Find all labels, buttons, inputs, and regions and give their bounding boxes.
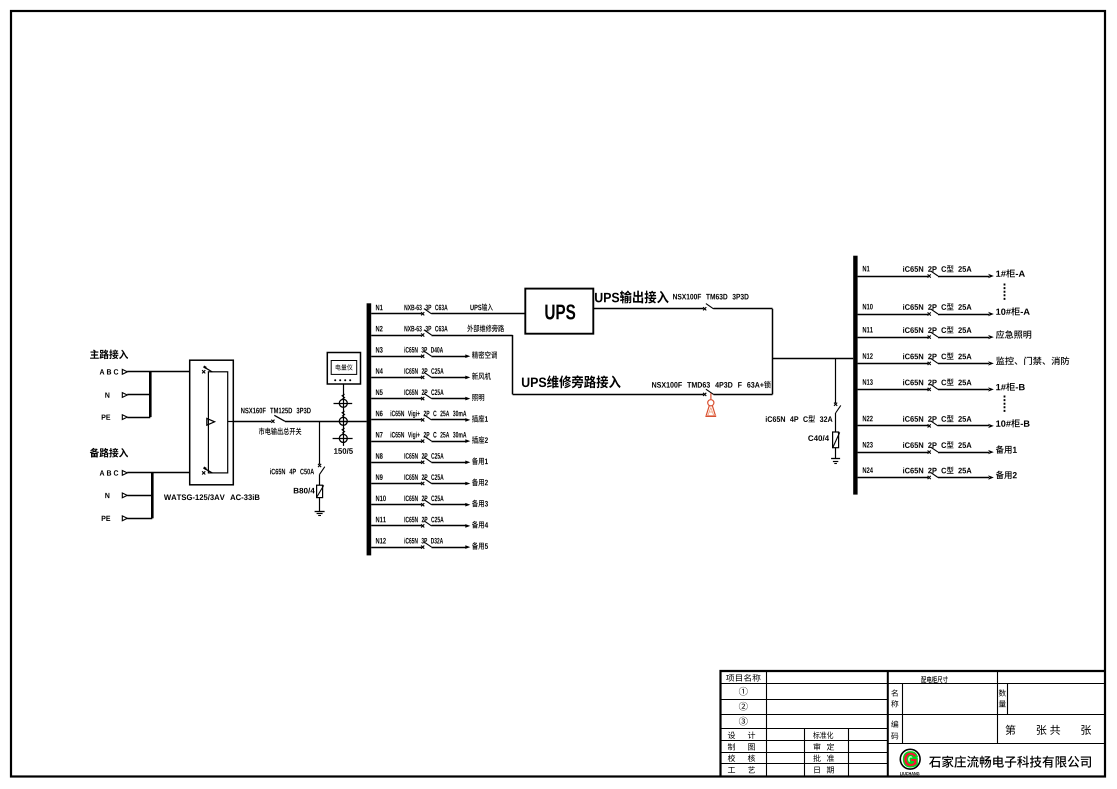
SPD B80/4 symbol <box>317 485 324 497</box>
wire PE backup <box>127 518 152 520</box>
wire SPD to ground <box>319 498 321 512</box>
breaker N13 (bus 2) <box>928 384 938 391</box>
wire N2 from bus <box>371 335 421 337</box>
label UPS输出接入 <box>595 291 669 304</box>
power meter box 电量仪 <box>327 353 360 385</box>
SPD C40/4 symbol <box>833 432 840 448</box>
label 外部维修旁路 (N2) <box>467 325 504 333</box>
node N11 label <box>376 517 386 523</box>
label IC65N 2P C25A (N10) <box>404 496 443 502</box>
node N10 label <box>376 496 386 502</box>
breaker N2 NXB-63 <box>421 330 431 337</box>
wire N22 from bus 2 <box>858 425 928 427</box>
wire SPD2 to ground <box>835 448 837 459</box>
wire N24 to load <box>938 477 989 479</box>
cell label 核 <box>748 754 755 761</box>
cell label 工 <box>728 767 735 773</box>
load label 备用3 (N10) <box>472 500 488 508</box>
load arrow N4 <box>465 376 470 380</box>
wire N11 from bus <box>371 525 421 527</box>
label iC65N 2P C型 25A (N12) <box>903 353 971 360</box>
breaker N4 <box>421 372 431 379</box>
cell label 计 <box>748 732 755 739</box>
sheet numbering 第 张 共 张 <box>1006 725 1016 735</box>
wire N3 from bus <box>371 356 421 358</box>
ground symbol (C40/4) <box>831 459 840 464</box>
breaker N23 (bus 2) <box>928 447 938 454</box>
load arrow N9 <box>465 482 470 486</box>
wire to SPD B80/4 <box>319 474 321 485</box>
wire N1 from bus <box>371 313 421 315</box>
wire N backup <box>127 495 152 497</box>
load arrow N10 (bus 2) <box>988 312 994 316</box>
wire UPS output <box>593 308 703 310</box>
label UPS维修旁路接入 <box>522 375 621 388</box>
wire vertical collector backup <box>151 473 154 518</box>
load label 精密空调 (N3) <box>472 351 497 359</box>
label iC65N 3P D40A (N3) <box>404 347 443 353</box>
wire N11 to load <box>432 525 467 527</box>
CT 3 <box>339 434 347 442</box>
logo text LIUCHANG <box>900 772 919 775</box>
ellipsis dashes N13..N22 <box>1004 396 1006 413</box>
load label 监控、门禁、消防 (N12) <box>996 357 1069 365</box>
node N12 label <box>376 538 386 544</box>
title block horizontal line y=714.0 <box>721 714 1106 716</box>
load arrow N6 <box>465 418 470 422</box>
ATS inner box <box>208 372 227 473</box>
wire N4 to load <box>432 377 467 379</box>
breaker iC65N 4P C50A <box>318 464 325 474</box>
terminal label A B C (backup) <box>100 470 119 475</box>
label IC65N 2P C25A (N4) <box>404 368 443 374</box>
breaker N24 (bus 2) <box>928 472 938 479</box>
load arrow N24 (bus 2) <box>988 475 994 479</box>
title block vertical x=766 <box>766 671 768 776</box>
cell label 码 <box>891 733 898 740</box>
wire N22 to load <box>938 425 989 427</box>
title block vertical x=997 <box>997 671 999 744</box>
node N8 label <box>376 453 383 459</box>
padlock interlock symbol (orange) <box>705 393 716 416</box>
label iC65N 4P C型 32A <box>766 415 833 422</box>
cell label 艺 <box>748 766 755 773</box>
label NXB-63 3P C63A (N1) <box>404 305 447 311</box>
wire N5 to load <box>432 398 467 400</box>
label UPS输入 (N1) <box>470 303 492 310</box>
breaker N12 <box>421 542 431 549</box>
label NSX100F TMD63 4P3D F 63A+锁 <box>652 381 771 388</box>
load arrow N8 <box>465 461 470 465</box>
cell label 期 <box>827 766 834 773</box>
input terminal arrow main PE <box>122 415 127 420</box>
wire main to bus 1 <box>285 421 367 423</box>
wire N6 from bus <box>371 419 421 421</box>
title block left horizontal y=752.6 <box>721 752 888 754</box>
label iC65N 2P C型 25A (N23) <box>903 441 971 448</box>
wire vertical output/bypass join <box>772 309 774 395</box>
wire N13 from bus 2 <box>858 389 928 391</box>
ground symbol (B80/4) <box>315 512 325 516</box>
wire N7 to load <box>432 441 467 443</box>
breaker N11 (bus 2) <box>928 332 938 339</box>
title block outline <box>721 671 1106 776</box>
load label 1#柜-B (N13) <box>996 383 1025 391</box>
load arrow N10 <box>465 503 470 507</box>
company logo (G in circle) <box>900 749 920 769</box>
wire surge branch down <box>319 421 321 464</box>
wire N12 to load <box>432 547 467 549</box>
wire N4 from bus <box>371 377 421 379</box>
wire N1 to UPS <box>432 313 526 315</box>
wire N24 from bus 2 <box>858 477 928 479</box>
load arrow N1 (bus 2) <box>988 274 994 278</box>
cell label 称 <box>891 700 898 707</box>
load arrow N13 (bus 2) <box>988 387 994 391</box>
wire N10 to load <box>938 314 989 316</box>
wire ATS inner to outer <box>228 421 234 423</box>
wire bypass run <box>513 394 704 396</box>
wire bypass to corner <box>714 394 773 396</box>
title block vertical x=902 <box>902 684 904 744</box>
breaker N11 <box>421 521 431 528</box>
load label 插座2 (N7) <box>472 436 488 444</box>
wire output to corner <box>714 308 773 310</box>
CT 2 (on main line) <box>339 417 347 425</box>
CT 3 bar <box>333 438 353 440</box>
cell label 制 <box>728 743 735 750</box>
wire N10 from bus 2 <box>858 314 928 316</box>
label IC65N 2P C25A (N8) <box>404 453 443 459</box>
node N7 label <box>376 432 383 438</box>
wire N6 to load <box>432 419 467 421</box>
node N5 label <box>376 389 383 395</box>
load arrow N12 <box>465 545 470 549</box>
node N23 label (bus 2) <box>863 442 873 448</box>
load label 备用5 (N12) <box>472 542 488 550</box>
node N1 label (bus 2) <box>863 266 870 272</box>
title block left horizontal y=740.9 <box>721 740 888 742</box>
node N2 label <box>376 326 383 332</box>
load arrow N23 (bus 2) <box>988 450 994 454</box>
cell label 配电柜尺寸 <box>921 676 947 683</box>
breaker N6 <box>421 415 431 422</box>
label iC65N Vigi+ 2P C 25A 30mA (N7) <box>391 432 467 439</box>
label iC65N 4P C50A <box>270 469 314 475</box>
wire N10 from bus <box>371 504 421 506</box>
node N22 label (bus 2) <box>863 416 873 422</box>
label iC65N 2P C型 25A (N13) <box>903 379 971 386</box>
title block right horizontal y=743.8 <box>888 743 1105 745</box>
load arrow N22 (bus 2) <box>988 424 994 428</box>
label iC65N 2P C型 25A (N1) <box>903 265 971 272</box>
wire N13 to load <box>938 389 989 391</box>
wire N23 from bus 2 <box>858 452 928 454</box>
load arrow N12 (bus 2) <box>988 361 994 365</box>
label iC65N 3P D32A (N12) <box>404 538 443 544</box>
load label 备用4 (N11) <box>472 521 488 529</box>
wire N8 from bus <box>371 462 421 464</box>
wire N12 from bus 2 <box>858 363 928 365</box>
cell label 项目名称 <box>726 674 760 682</box>
title block left horizontal y=699.1 <box>721 699 888 701</box>
logo letter G red core <box>904 753 916 766</box>
ellipsis dashes N1..N10 <box>1004 284 1006 302</box>
node N3 label <box>376 347 383 353</box>
title block vertical x=804 <box>804 729 806 777</box>
label IC65N 2P C25A (N11) <box>404 517 443 523</box>
wire N7 from bus <box>371 441 421 443</box>
node N4 label <box>376 368 383 374</box>
wire N11 from bus 2 <box>858 337 928 339</box>
load arrow N5 <box>465 397 470 401</box>
wire N9 from bus <box>371 483 421 485</box>
input terminal arrow backup N <box>122 493 127 498</box>
wire PE main <box>127 417 150 419</box>
load arrow N11 (bus 2) <box>988 335 994 339</box>
wire N10 to load <box>432 504 467 506</box>
cell label 批 <box>813 754 820 761</box>
label backup incoming 备路接入 <box>90 448 128 458</box>
node N10 label (bus 2) <box>863 304 873 310</box>
logo letter G green outline <box>904 753 916 766</box>
load label 备用2 (N24) <box>996 471 1017 479</box>
breaker N1 NXB-63 <box>421 309 431 316</box>
wire ABC main to ATS <box>127 371 189 373</box>
label WATSG-125/3AV AC-33iB <box>164 494 260 500</box>
load label 应急照明 (N11) <box>996 330 1031 339</box>
cell label 数 <box>999 689 1006 696</box>
label main incoming 主路接入 <box>90 350 128 360</box>
title block vertical x=849 <box>848 729 850 777</box>
terminal label PE (main) <box>102 415 111 420</box>
cell label 名 <box>891 689 897 696</box>
terminal label N (backup) <box>105 493 109 498</box>
cell label ③ <box>739 717 748 726</box>
label 150/5 <box>334 448 353 454</box>
load label 备用2 (N9) <box>472 479 488 487</box>
node N24 label (bus 2) <box>863 467 873 473</box>
wire N1 from bus 2 <box>858 276 928 278</box>
cell label 量 <box>999 700 1006 707</box>
wire junction to bus 2 <box>773 358 854 360</box>
cell label 校 <box>728 754 735 761</box>
label iC65N 2P C型 25A (N10) <box>903 303 971 310</box>
input terminal arrow main N <box>122 393 127 398</box>
cell label 设 <box>728 732 735 739</box>
cell label 定 <box>827 743 834 750</box>
cell label 审 <box>814 743 821 750</box>
terminal label A B C (main) <box>100 369 119 374</box>
title block horizontal line y=683.9 <box>721 683 1106 685</box>
node N13 label (bus 2) <box>863 379 873 385</box>
label IC65N 2P C25A (N9) <box>404 474 443 480</box>
label IC65N 2P C25A (N5) <box>404 389 443 395</box>
cell label 标准化 <box>813 731 833 738</box>
node N9 label <box>376 474 383 480</box>
wire N main <box>127 394 150 396</box>
wire N1 to load <box>938 276 989 278</box>
UPS box <box>525 289 593 334</box>
wire N9 to load <box>432 483 467 485</box>
wire N8 to load <box>432 462 467 464</box>
ATS transfer switch WATSG-125/3AV outer box <box>190 360 234 485</box>
wire N12 from bus <box>371 547 421 549</box>
ATS top contact (main) <box>202 366 212 373</box>
label iC65N Vigi+ 2P C 25A 30mA (N6) <box>391 410 467 417</box>
breaker N22 (bus 2) <box>928 421 938 428</box>
ATS output triangle <box>207 418 215 425</box>
ATS bottom contact (backup) <box>202 468 212 475</box>
load arrow N3 <box>465 354 470 358</box>
breaker iC65N 4P C type 32A <box>834 403 841 413</box>
cell label 准 <box>827 755 834 762</box>
wire vertical collector main <box>149 372 152 417</box>
wire meter CT string <box>343 384 345 446</box>
wire N3 to load <box>432 356 467 358</box>
terminal label N (main) <box>105 392 109 397</box>
load label 1#柜-A (N1) <box>996 269 1025 277</box>
load label 备用1 (N23) <box>996 445 1017 453</box>
wire N2 to corner <box>432 335 513 337</box>
label UPS <box>545 304 575 319</box>
breaker N8 <box>421 457 431 464</box>
cell label 日 <box>814 767 819 774</box>
load label 新风机 (N4) <box>472 372 491 379</box>
input terminal arrow backup PE <box>122 516 127 521</box>
CT 1 bar <box>334 403 353 405</box>
breaker N9 <box>421 478 431 485</box>
load label 插座1 (N6) <box>472 415 488 423</box>
load arrow N11 <box>465 524 470 528</box>
title block vertical x=1007 <box>1007 684 1009 714</box>
node N12 label (bus 2) <box>863 353 873 359</box>
label 市电输出总开关 <box>259 427 302 435</box>
bus bar 2 (UPS output bus) <box>853 256 857 495</box>
title block thick divider <box>887 671 889 776</box>
label 电量仪 <box>336 364 353 370</box>
company name 石家庄流畅电子科技有限公司 <box>929 756 1091 768</box>
cell label 编 <box>891 721 898 728</box>
wire N5 from bus <box>371 398 421 400</box>
label NXB-63 3P C63A (N2) <box>404 326 447 332</box>
load label 照明 (N5) <box>472 394 484 401</box>
label NSX100F TM63D 3P3D <box>673 294 749 300</box>
title block left horizontal y=728.7 <box>721 728 888 730</box>
breaker NSX160F TM125D 3P3D <box>271 415 285 423</box>
label B80/4 <box>294 488 315 494</box>
breaker NSX100F TM63D 3P3D <box>703 304 713 311</box>
breaker N12 (bus 2) <box>928 358 938 365</box>
breaker N1 (bus 2) <box>928 271 938 278</box>
breaker NSX100F TMD63 4P3D F 63A+lock <box>703 389 713 396</box>
breaker N7 <box>421 436 431 443</box>
wire N11 to load <box>938 337 989 339</box>
load label 10#柜-A (N10) <box>996 307 1030 315</box>
wire N12 to load <box>938 363 989 365</box>
label iC65N 2P C型 25A (N24) <box>903 467 971 474</box>
label C40/4 <box>808 435 829 441</box>
wire N23 to load <box>938 452 989 454</box>
breaker N3 <box>421 351 431 358</box>
node N6 label <box>376 411 383 417</box>
load arrow N7 <box>465 439 470 443</box>
label iC65N 2P C型 25A (N22) <box>903 415 971 422</box>
breaker N10 <box>421 500 431 507</box>
cell label ② <box>739 702 748 711</box>
load label 备用1 (N8) <box>472 457 488 465</box>
label NSX160F TM125D 3P3D <box>241 408 311 414</box>
title block left horizontal y=763.9 <box>721 763 888 765</box>
wire ABC backup to ATS <box>127 472 189 474</box>
terminal label PE (backup) <box>102 516 111 521</box>
bus bar 1 (main LV bus) <box>367 303 372 555</box>
label iC65N 2P C型 25A (N11) <box>903 326 971 333</box>
node N11 label (bus 2) <box>863 327 873 333</box>
wire to SPD C40/4 <box>835 413 837 432</box>
breaker N5 <box>421 393 431 400</box>
cell label 图 <box>748 743 755 750</box>
wire surge branch 2 down <box>835 359 837 403</box>
load label 10#柜-B (N22) <box>996 419 1029 427</box>
CT 1 (current transformer) <box>339 399 347 407</box>
cell label ① <box>739 687 748 696</box>
CT polarity zigzag marks <box>342 394 345 399</box>
node N1 label <box>376 305 383 311</box>
wire ATS output <box>233 421 271 423</box>
breaker N10 (bus 2) <box>928 309 938 316</box>
wire N2 corner down <box>512 335 514 394</box>
input terminal arrow backup A B C <box>122 471 127 476</box>
input terminal arrow main A B C <box>122 369 127 374</box>
